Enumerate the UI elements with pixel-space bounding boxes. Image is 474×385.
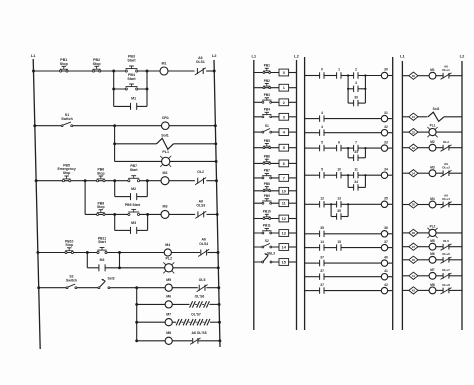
svg-text:15: 15 — [337, 240, 341, 244]
wire rung5 — [85, 213, 217, 215]
svg-text:10: 10 — [282, 189, 286, 193]
svg-text:2: 2 — [355, 68, 357, 72]
overload OLS3 — [195, 199, 206, 218]
program rung coil 36 — [305, 226, 393, 237]
svg-text:Stop: Stop — [63, 171, 71, 175]
output row 34 coil — [402, 162, 462, 177]
svg-text:PL2: PL2 — [430, 224, 436, 228]
svg-text:CR1: CR1 — [162, 116, 169, 120]
svg-text:4: 4 — [321, 125, 323, 129]
program rung coil 32 — [305, 125, 393, 136]
pushbutton PB6 Stop — [97, 168, 106, 182]
svg-text:33: 33 — [412, 146, 416, 150]
overload OLS7 — [176, 312, 210, 325]
wire rung4-rung5 vertical — [84, 181, 86, 215]
node rung4-A — [84, 179, 87, 182]
svg-text:Stop: Stop — [97, 205, 105, 209]
svg-text:M2: M2 — [430, 140, 435, 144]
overload OL5 — [197, 278, 208, 292]
svg-text:L2: L2 — [294, 54, 299, 59]
svg-text:M5: M5 — [166, 278, 171, 282]
svg-text:M7: M7 — [430, 268, 435, 272]
svg-text:M4: M4 — [100, 258, 105, 262]
svg-text:4: 4 — [321, 111, 323, 115]
svg-text:42: 42 — [384, 283, 388, 287]
node SOL1-L2 — [214, 142, 217, 145]
output row 35 coil — [402, 193, 462, 208]
input row PB2 addr 1 — [254, 79, 297, 91]
svg-text:34: 34 — [412, 171, 416, 175]
svg-text:34: 34 — [354, 180, 358, 184]
overload OLS6 — [190, 295, 210, 308]
svg-text:Start: Start — [130, 168, 139, 172]
svg-text:11: 11 — [354, 167, 358, 171]
svg-text:7: 7 — [283, 176, 285, 180]
svg-text:35: 35 — [384, 197, 388, 201]
wire M3 contact row — [115, 229, 148, 231]
input row PB8 addr 10 — [254, 182, 297, 194]
svg-text:30: 30 — [354, 95, 358, 99]
svg-text:35: 35 — [337, 209, 341, 213]
svg-text:1: 1 — [283, 86, 285, 90]
node rung4-bl — [113, 179, 116, 182]
program rung coil 40 — [305, 255, 393, 266]
svg-text:31: 31 — [412, 115, 416, 119]
wire M4/PL2 row — [87, 267, 218, 269]
output row 42 coil — [402, 283, 462, 294]
wire M7 row — [137, 321, 220, 323]
wire M2 contact row — [115, 196, 148, 198]
coil M6 — [165, 295, 172, 308]
svg-text:5: 5 — [283, 146, 285, 150]
node rung5-bl — [113, 213, 116, 216]
switch S1 — [61, 113, 73, 127]
svg-text:Stop: Stop — [93, 62, 102, 66]
svg-text:Sel3: Sel3 — [108, 276, 115, 280]
svg-text:37: 37 — [412, 245, 416, 249]
svg-text:M1: M1 — [131, 97, 136, 101]
wire rung5 branch verticals — [115, 214, 148, 230]
program branch contact 33 — [347, 147, 367, 161]
node branch-right — [146, 70, 149, 73]
svg-text:OLs8: OLs8 — [442, 283, 450, 287]
svg-text:L1: L1 — [31, 53, 36, 58]
switch S2 — [66, 275, 77, 289]
pushbutton PB7 Start — [128, 164, 140, 182]
program rung coil 30 — [305, 68, 393, 79]
node rung4-br — [146, 179, 149, 182]
svg-text:5: 5 — [321, 167, 323, 171]
node rung1-L2 — [213, 70, 216, 73]
left rail L1 — [31, 53, 40, 349]
pilot light PL1 — [160, 150, 171, 167]
svg-text:3: 3 — [355, 81, 357, 85]
output row 37 coil — [402, 239, 462, 250]
node rung4-L2 — [215, 179, 218, 182]
svg-text:A6 OL'S8: A6 OL'S8 — [192, 331, 207, 335]
svg-text:M3: M3 — [163, 205, 168, 209]
svg-text:Start: Start — [98, 240, 107, 244]
svg-text:35: 35 — [320, 226, 324, 230]
svg-text:PB10: PB10 — [263, 210, 271, 214]
pushbutton PB8 Stop — [97, 201, 106, 215]
overload OL2 — [195, 170, 206, 185]
svg-text:OLs1: OLs1 — [442, 68, 450, 72]
node rung6-A — [86, 251, 89, 254]
input row S2 addr 14 — [254, 239, 297, 251]
program rung coil 34 — [305, 167, 393, 178]
svg-text:PL1: PL1 — [430, 124, 436, 128]
svg-text:OLS4: OLS4 — [199, 242, 208, 246]
input row S1 addr 4 — [254, 124, 297, 136]
svg-text:Sol1: Sol1 — [161, 134, 169, 138]
svg-text:14: 14 — [320, 240, 324, 244]
program rung coil 42 — [305, 283, 393, 294]
svg-text:40: 40 — [412, 258, 416, 262]
svg-text:OLS1: OLS1 — [196, 60, 205, 64]
svg-text:M8: M8 — [430, 283, 435, 287]
output rail L2 — [460, 54, 465, 330]
svg-text:OLs6: OLs6 — [442, 252, 450, 256]
node M7-tap — [135, 321, 138, 324]
svg-text:M1: M1 — [162, 62, 167, 66]
svg-text:32: 32 — [384, 125, 388, 129]
svg-text:Start: Start — [127, 77, 136, 81]
input row PB1 addr 0 — [254, 64, 297, 76]
node rung6-L1 — [36, 251, 39, 254]
svg-text:S2: S2 — [265, 239, 269, 243]
wire M1 contact row — [114, 105, 147, 107]
node rung5-L2 — [216, 213, 219, 216]
svg-text:33: 33 — [384, 140, 388, 144]
svg-text:13: 13 — [282, 232, 286, 236]
svg-text:PB3: PB3 — [264, 93, 270, 97]
node M6-tap — [135, 303, 138, 306]
program rung coil 37 — [305, 240, 393, 251]
svg-text:L2: L2 — [460, 54, 465, 59]
svg-text:Stop: Stop — [65, 243, 73, 247]
input rail L1 — [251, 54, 256, 330]
program branch contact 34 — [347, 174, 367, 191]
svg-text:37: 37 — [320, 255, 324, 259]
svg-text:PB8: PB8 — [264, 182, 270, 186]
output row 40 coil — [402, 252, 462, 263]
node rung6-L2 — [217, 251, 220, 254]
svg-text:OL5: OL5 — [443, 239, 449, 243]
input row PB10 addr 12 — [254, 210, 297, 222]
pushbutton PB3 Start — [125, 55, 138, 72]
svg-text:11: 11 — [282, 202, 286, 206]
svg-text:PB11: PB11 — [263, 224, 271, 228]
svg-text:30: 30 — [384, 68, 388, 72]
pushbutton PB1 Stop — [60, 58, 69, 72]
svg-text:PB5: PB5 — [264, 139, 270, 143]
svg-text:37: 37 — [320, 269, 324, 273]
svg-text:32: 32 — [412, 130, 416, 134]
svg-text:37: 37 — [384, 240, 388, 244]
node PL1-L2 — [215, 160, 218, 163]
svg-text:M2: M2 — [163, 171, 168, 175]
svg-text:M6: M6 — [430, 252, 435, 256]
input rail L2 — [294, 54, 299, 330]
svg-text:OLs3: OLs3 — [442, 166, 450, 170]
svg-text:12: 12 — [282, 217, 286, 221]
node rung2-L1 — [33, 124, 36, 127]
svg-text:15: 15 — [282, 261, 286, 265]
coil M3 — [161, 205, 169, 219]
svg-text:Stop: Stop — [60, 62, 69, 66]
wire rung4 branch verticals — [115, 181, 148, 197]
svg-text:PB9: PB9 — [264, 194, 270, 198]
svg-text:PB6: PB6 — [264, 155, 270, 159]
svg-text:M1: M1 — [430, 68, 435, 72]
pushbutton PB10 Stop — [65, 239, 74, 253]
program branch contact 35 — [330, 203, 349, 220]
node rung7-L1 — [37, 286, 40, 289]
node M7-L2 — [218, 321, 221, 324]
node rung5-br — [146, 213, 149, 216]
program rung coil 41 — [305, 269, 393, 280]
svg-text:OL2: OL2 — [443, 140, 449, 144]
node PL2-tap — [118, 266, 121, 269]
output row 31 sol — [402, 107, 462, 122]
svg-text:6: 6 — [283, 162, 285, 166]
pushbutton PB4 Start — [125, 73, 138, 90]
svg-text:41: 41 — [412, 274, 416, 278]
node rung2-tap — [113, 124, 116, 127]
pushbutton PB2 Stop — [92, 58, 101, 72]
overload OLS1 — [195, 56, 206, 75]
svg-text:M4: M4 — [430, 197, 435, 201]
svg-text:7: 7 — [355, 140, 357, 144]
svg-text:5: 5 — [321, 140, 323, 144]
svg-text:42: 42 — [412, 289, 416, 293]
wire rung6 — [38, 252, 218, 254]
svg-text:PL2: PL2 — [166, 256, 173, 260]
svg-text:13: 13 — [337, 197, 341, 201]
wire rung1 branch verticals — [114, 71, 147, 106]
svg-text:OL'S7: OL'S7 — [191, 312, 201, 316]
svg-text:PB7: PB7 — [264, 169, 270, 173]
output row 30 coil — [402, 65, 462, 80]
wire M6 row — [137, 303, 219, 305]
svg-text:A6: A6 — [198, 56, 202, 60]
pilot light PL2 — [163, 256, 174, 273]
input row SEL3 addr 15 — [254, 252, 297, 266]
contact M3 seal — [131, 221, 137, 234]
svg-text:10: 10 — [337, 167, 341, 171]
solenoid Sol1 — [157, 134, 174, 150]
program branch contact 30 — [347, 88, 367, 107]
node M8-L2 — [218, 339, 221, 342]
svg-text:12: 12 — [320, 197, 324, 201]
svg-text:OLs4: OLs4 — [442, 197, 450, 201]
node PB4-left — [112, 88, 115, 91]
svg-text:40: 40 — [384, 255, 388, 259]
coil M2 — [161, 171, 169, 185]
svg-text:Stop: Stop — [97, 171, 105, 175]
svg-text:3: 3 — [283, 115, 285, 119]
output row 41 coil — [402, 268, 462, 279]
svg-text:2: 2 — [283, 101, 285, 105]
wire PB4 row — [114, 88, 147, 90]
svg-text:0: 0 — [321, 68, 323, 72]
svg-text:OL'S6: OL'S6 — [195, 295, 205, 299]
svg-text:OLS3: OLS3 — [196, 204, 205, 208]
node PL2-L2 — [217, 266, 220, 269]
svg-text:Sol1: Sol1 — [433, 107, 440, 111]
svg-text:M5: M5 — [430, 239, 435, 243]
node rung7-L2 — [217, 286, 220, 289]
contact M4 seal — [99, 258, 105, 271]
svg-text:PL1: PL1 — [162, 150, 169, 154]
contact M2 seal — [131, 187, 137, 200]
wire rung4 — [36, 180, 216, 182]
svg-text:30: 30 — [412, 74, 416, 78]
wire M8 row — [137, 340, 220, 342]
svg-text:Switch: Switch — [66, 278, 77, 282]
node rung7-tap — [135, 286, 138, 289]
svg-text:41: 41 — [384, 269, 388, 273]
svg-text:M3: M3 — [430, 166, 435, 170]
pushbutton PB5 Emergency Stop — [57, 163, 75, 181]
program rung coil 33 — [305, 140, 393, 151]
wire rung2 tap vertical — [114, 126, 116, 162]
svg-text:M4: M4 — [165, 243, 170, 247]
svg-text:M7: M7 — [166, 312, 171, 316]
svg-text:33: 33 — [354, 150, 358, 154]
svg-text:Switch: Switch — [61, 117, 73, 121]
node rung2-L2 — [214, 124, 217, 127]
overload OLS8 — [190, 331, 206, 344]
program rail left — [304, 57, 306, 330]
svg-text:PB1: PB1 — [264, 64, 270, 68]
input row PB7 addr 7 — [254, 169, 297, 182]
pushbutton PB11 Start — [97, 236, 107, 253]
pushbutton PB9 Start — [125, 203, 141, 215]
svg-text:L1: L1 — [400, 54, 405, 59]
program rung coil 35 — [305, 197, 393, 208]
svg-text:L1: L1 — [251, 54, 256, 59]
output row 33 coil — [402, 140, 462, 151]
node SOL1-left — [113, 142, 116, 145]
input row PB3 addr 2 — [254, 93, 297, 106]
coil M4 — [164, 243, 171, 256]
input row PB9 addr 11 — [254, 194, 297, 207]
svg-text:M6: M6 — [166, 295, 171, 299]
svg-text:OL5: OL5 — [199, 278, 206, 282]
node PB4-right — [146, 88, 149, 91]
svg-text:OL2: OL2 — [197, 170, 204, 174]
program rail right — [392, 57, 394, 330]
input row PB11 addr 13 — [254, 224, 297, 237]
svg-text:Start: Start — [127, 59, 136, 63]
wire rung7 — [39, 287, 219, 289]
wire rung7 drop vertical — [136, 288, 138, 341]
node rung6-B — [118, 251, 121, 254]
wire rung1 — [34, 70, 215, 72]
svg-text:M3: M3 — [131, 221, 136, 225]
wire SOL1 row — [115, 143, 216, 145]
svg-text:34: 34 — [384, 167, 388, 171]
node M8-tap — [135, 339, 138, 342]
svg-text:31: 31 — [384, 111, 388, 115]
output rail L1 — [400, 54, 405, 330]
coil CR1 — [162, 116, 170, 130]
input row PB4 addr 3 — [254, 107, 297, 120]
svg-text:M2: M2 — [131, 187, 136, 191]
contact M1 seal — [131, 97, 137, 110]
coil M5 — [165, 278, 172, 291]
svg-text:1: 1 — [338, 68, 340, 72]
right rail L2 — [212, 53, 220, 347]
output row 32 pilot — [402, 124, 462, 138]
output row 36 pilot — [402, 224, 462, 238]
program rung coil 31 — [305, 111, 393, 122]
svg-text:36: 36 — [412, 231, 416, 235]
svg-text:S1: S1 — [265, 124, 269, 128]
svg-text:L2: L2 — [212, 53, 217, 58]
program branch contact 3 — [347, 74, 367, 92]
wire PL1 row — [115, 160, 217, 162]
svg-text:PB9 Start: PB9 Start — [125, 203, 141, 207]
svg-text:0: 0 — [283, 71, 285, 75]
node M6-L2 — [218, 303, 221, 306]
input row PB5 addr 5 — [254, 139, 297, 151]
wire rung2 — [35, 125, 216, 127]
coil M8 — [165, 331, 172, 344]
svg-text:35: 35 — [412, 203, 416, 207]
svg-text:PB2: PB2 — [264, 79, 270, 83]
node rung1-L1 — [32, 70, 35, 73]
coil M1 — [160, 62, 168, 75]
node rung4-L1 — [35, 179, 38, 182]
svg-text:OLs7: OLs7 — [442, 268, 450, 272]
input row PB6 addr 6 — [254, 155, 297, 167]
coil M7 — [165, 312, 172, 325]
switch Sel3 — [98, 276, 115, 288]
svg-text:36: 36 — [384, 226, 388, 230]
svg-text:37: 37 — [320, 283, 324, 287]
wire rung6 branch verticals — [87, 253, 119, 268]
svg-text:6: 6 — [338, 140, 340, 144]
node branch-left — [112, 70, 115, 73]
svg-text:M8: M8 — [166, 331, 171, 335]
overload OLS4 — [198, 238, 209, 257]
svg-text:PB4: PB4 — [264, 107, 270, 111]
